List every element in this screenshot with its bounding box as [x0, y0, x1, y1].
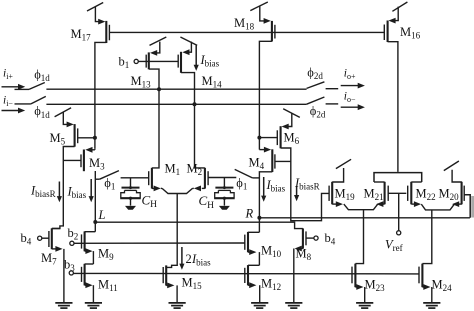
transistor M18 source lead: [260, 6, 271, 23]
svg-text:b3: b3: [64, 258, 75, 274]
VDD tick for M6: [283, 109, 300, 118]
ground under M15: [169, 302, 186, 304]
svg-text:IbiasR: IbiasR: [294, 176, 320, 192]
svg-text:Ibias: Ibias: [266, 178, 286, 194]
current label Ibias left: [67, 179, 94, 202]
ground under CH right: [219, 206, 230, 210]
svg-text:M11: M11: [98, 278, 118, 294]
input current arrow ii+: [2, 84, 26, 90]
svg-text:2: 2: [186, 252, 192, 266]
transistor M12 source lead: [248, 282, 260, 303]
VDD tick for M16: [392, 2, 407, 11]
wire M5 drain down to M7 drain: [52, 147, 75, 229]
node M6 gate junction: [257, 136, 261, 140]
node M14 drain on ii- rail: [193, 102, 197, 106]
wire bridge to M22 drain: [411, 181, 421, 183]
node b2 terminal: [70, 241, 74, 245]
transistor M16 source lead: [388, 7, 398, 24]
node M5 gate junction: [93, 136, 97, 140]
svg-text:M15: M15: [182, 276, 203, 292]
transistor M24 source lead: [422, 284, 431, 303]
node b3 terminal: [69, 271, 73, 275]
svg-text:ϕ1: ϕ1: [104, 176, 115, 192]
transistor M9: [82, 231, 85, 251]
svg-text:M14: M14: [202, 74, 223, 90]
wire M21-M22 gate line: [388, 192, 406, 194]
transistor M20: [462, 182, 465, 205]
node L: [93, 220, 97, 224]
wire node L rail to M8 drain: [95, 222, 303, 228]
svg-text:io−: io−: [344, 91, 356, 105]
wire M16 drain down right side to cascode bridge: [388, 42, 398, 172]
ground under M23: [356, 302, 373, 304]
transistor M11: [82, 264, 85, 286]
node b4 right terminal: [314, 236, 318, 240]
wire common source down to M24 drain: [422, 210, 431, 264]
svg-text:Vref: Vref: [385, 238, 403, 254]
wire M8 gate to b4: [306, 237, 314, 239]
transistor M12: [245, 265, 248, 285]
transistor M13 source lead: [150, 42, 160, 56]
transistor M21 source lead: [376, 201, 384, 207]
wire bridge to M21 drain: [374, 181, 385, 183]
transistor M8: [303, 228, 306, 248]
wire M4 drain down to node R: [259, 172, 272, 233]
wire diff pair tail: [162, 188, 192, 193]
transistor M22: [408, 182, 412, 205]
wire b3 rail to gates of M11 M15 M12 M23 M24: [73, 272, 419, 275]
svg-text:M12: M12: [261, 277, 281, 293]
transistor M20 drain lead to tick: [452, 170, 462, 182]
wire M10 drain stub: [248, 231, 259, 233]
wire M2 gate to phi1 right: [208, 177, 236, 179]
wire M9 drain stub to node L line: [85, 231, 96, 233]
wire phi1 to M1 gate: [121, 177, 149, 179]
wire M22-M20 common source: [421, 204, 454, 210]
capacitor CH left (MOS cap): [120, 178, 141, 206]
svg-text:M13: M13: [131, 74, 152, 90]
wire M3 gate to M5 drain line: [63, 159, 81, 161]
transistor M7: [49, 228, 52, 249]
svg-text:M1: M1: [165, 162, 181, 178]
transistor M7 source lead: [52, 246, 64, 303]
ground under M24: [423, 302, 440, 304]
svg-text:Ibias: Ibias: [191, 252, 211, 268]
transistor M9 source lead: [85, 248, 94, 264]
svg-text:b4: b4: [21, 231, 32, 247]
switch phi2d on io- output: [307, 97, 339, 104]
wire M13 drain down to input rail and M1 drain: [149, 69, 159, 168]
transistor M11 source lead: [85, 282, 94, 303]
svg-text:M3: M3: [89, 156, 105, 172]
wire node R rail to M20 gate: [259, 217, 470, 219]
svg-text:ϕ1d: ϕ1d: [34, 104, 50, 120]
wire M17 drain down to M5 gate and M3 source: [95, 42, 106, 148]
wire M12 drain stub: [248, 264, 259, 266]
output current arrow io-: [341, 104, 365, 110]
current label Ibias right: [261, 177, 286, 202]
transistor M19: [329, 182, 332, 205]
wire M18 drain down to M6 gate: [259, 41, 272, 137]
svg-text:Ibias: Ibias: [67, 185, 87, 201]
transistor M18: [272, 21, 275, 42]
transistor M3 source lead: [85, 147, 95, 153]
current label IbiasR left: [30, 182, 62, 203]
svg-text:M7: M7: [41, 251, 57, 267]
svg-text:M6: M6: [284, 131, 300, 147]
VDD tick for M19: [336, 159, 351, 168]
svg-text:L: L: [98, 208, 106, 222]
capacitor CH right (MOS cap): [214, 178, 235, 206]
transistor M8 source lead: [294, 246, 303, 303]
transistor M24: [419, 264, 422, 288]
transistor M5 source lead: [63, 112, 74, 127]
transistor M6: [277, 126, 280, 148]
svg-text:Ibias: Ibias: [200, 53, 220, 69]
transistor M5: [75, 124, 78, 147]
node Vref terminal: [397, 231, 401, 235]
transistor M14 source lead: [182, 42, 191, 56]
svg-text:b1: b1: [119, 55, 130, 71]
wire M6 gate lead: [259, 137, 277, 139]
wire ii+ rail: [46, 88, 306, 90]
svg-text:M20: M20: [439, 187, 460, 203]
transistor M10 source lead: [248, 249, 259, 265]
transistor M23 source lead: [355, 284, 364, 303]
transistor M23: [352, 264, 355, 288]
wire M3 drain down to node L: [94, 171, 96, 232]
transistor M20 source lead: [452, 201, 462, 207]
svg-text:M16: M16: [400, 25, 421, 41]
transistor M2 source lead: [193, 186, 205, 192]
node b4 left terminal: [38, 236, 42, 240]
ground under M12: [251, 302, 268, 304]
node b1 input terminal: [134, 59, 138, 63]
transistor M17: [106, 21, 109, 43]
current label IbiasR right: [294, 176, 320, 201]
transistor M4 source lead: [259, 138, 271, 153]
wire b1 to gates of M13 and M14: [138, 60, 178, 62]
ground under M7: [55, 302, 72, 304]
wire b4 to M7 gate: [42, 237, 49, 239]
switch phi1d on ii+ input: [15, 83, 45, 90]
svg-text:R: R: [245, 207, 254, 221]
node M13 drain on ii+ rail: [157, 87, 161, 91]
svg-text:io+: io+: [344, 68, 356, 82]
transistor M1 source lead: [152, 186, 162, 192]
svg-text:M4: M4: [249, 156, 265, 172]
VDD tick for M13: [150, 37, 167, 45]
svg-text:b4: b4: [325, 231, 336, 247]
svg-text:M2: M2: [187, 162, 203, 178]
ground under CH left: [125, 206, 136, 210]
current label 2Ibias: [179, 247, 211, 270]
output current arrow io+: [341, 83, 365, 89]
wire M11 drain stub: [85, 263, 94, 265]
VDD tick for M5: [55, 108, 72, 117]
svg-text:ii+: ii+: [3, 68, 13, 82]
transistor M1: [149, 168, 152, 189]
VDD tick for M14: [180, 37, 197, 45]
current label Ibias at M14: [194, 46, 220, 71]
wire M4 gate to M6 drain line: [275, 160, 291, 162]
VDD tick for M20: [444, 161, 459, 171]
VDD tick for M18: [250, 2, 267, 11]
wire M6 drain down and over to M19 gate: [281, 148, 330, 221]
switch phi1d on ii- input: [15, 96, 46, 104]
svg-text:ϕ1d: ϕ1d: [34, 68, 50, 84]
transistor M19 source lead: [332, 201, 343, 207]
transistor M17 source lead: [95, 7, 105, 25]
svg-text:M5: M5: [50, 131, 66, 147]
transistor M15 source lead: [166, 283, 177, 303]
transistor M4: [272, 149, 275, 172]
svg-text:M22: M22: [416, 187, 436, 203]
transistor M22 source lead: [411, 201, 421, 207]
svg-text:b2: b2: [68, 226, 79, 242]
ground under M11: [85, 302, 102, 304]
wire common source down to M23 drain: [355, 210, 363, 264]
gate bias rail M17-M18-M16: [109, 31, 384, 33]
svg-text:M24: M24: [432, 278, 453, 294]
transistor M10: [245, 232, 248, 252]
transistor M3: [81, 150, 84, 172]
svg-text:ϕ2d: ϕ2d: [307, 66, 323, 82]
switch phi1 left: [95, 171, 119, 180]
wire Vref to gate line: [398, 193, 400, 230]
transistor M19 drain lead to tick: [332, 168, 343, 182]
switch phi1 right: [235, 169, 260, 178]
svg-text:ϕ1: ϕ1: [236, 176, 247, 192]
svg-text:M9: M9: [98, 247, 114, 263]
transistor M2: [205, 168, 208, 189]
wire ii- rail: [46, 103, 306, 105]
wire M20 gate to node R rail: [464, 195, 470, 218]
svg-text:ii−: ii−: [3, 95, 13, 109]
svg-text:ϕ2d: ϕ2d: [310, 104, 326, 120]
wire M5 gate to M17 drain line: [78, 137, 95, 139]
svg-text:CH: CH: [199, 193, 215, 211]
svg-text:CH: CH: [142, 193, 158, 211]
node R: [257, 216, 261, 220]
wire b2 rail to M9 and M10 gates: [74, 242, 245, 244]
svg-text:M23: M23: [365, 278, 386, 294]
svg-text:M18: M18: [234, 16, 255, 32]
wire tail down to M15: [166, 194, 177, 268]
transistor M14: [178, 52, 181, 73]
transistor M6 source lead: [282, 113, 292, 129]
transistor M21: [385, 182, 389, 205]
transistor M15: [163, 265, 166, 285]
svg-text:M19: M19: [335, 187, 356, 203]
wire M14 drain down to input rail and M2 drain: [181, 73, 205, 168]
wire M19-M21 common source: [344, 204, 378, 210]
svg-text:M21: M21: [364, 187, 384, 203]
transistor M16: [384, 21, 387, 43]
svg-text:IbiasR: IbiasR: [30, 184, 56, 200]
wire cascode bridge: [374, 173, 422, 182]
switch phi2d on io+ output: [307, 82, 339, 89]
ground under M8: [285, 302, 302, 304]
transistor M13: [146, 52, 149, 69]
input current arrow ii-: [2, 108, 26, 114]
svg-text:M17: M17: [71, 27, 92, 43]
wire M7 drain stub: [52, 228, 60, 230]
VDD tick for M17: [87, 3, 103, 12]
svg-text:M10: M10: [261, 244, 282, 260]
